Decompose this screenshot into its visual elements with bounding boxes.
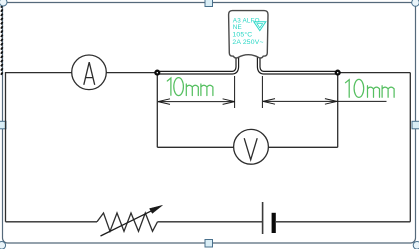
svg-text:NE: NE xyxy=(233,24,242,31)
wire right vertical xyxy=(409,73,411,222)
hatched left edge xyxy=(1,5,3,75)
battery BT1 plate long xyxy=(262,202,264,234)
thermal fuse body U1 xyxy=(229,11,268,58)
handle bottom-right xyxy=(413,242,419,249)
handle bottom-middle xyxy=(205,240,213,248)
dimension extension line right xyxy=(261,76,263,108)
component left lead (double line) xyxy=(159,57,237,73)
handle mid-left xyxy=(0,121,6,129)
handle top-right xyxy=(412,0,419,6)
wire node A down to voltmeter row xyxy=(156,73,158,147)
dimension line right 10mm xyxy=(263,99,387,105)
letter A xyxy=(84,62,95,85)
handle mid-right xyxy=(412,121,419,129)
wire bottom-left horizontal xyxy=(6,221,98,223)
wire voltmeter left horizontal xyxy=(157,146,233,148)
node A (junction ring) xyxy=(155,71,159,75)
wire voltmeter right horizontal xyxy=(268,146,337,148)
letter V xyxy=(244,138,257,160)
logo triangle on body xyxy=(254,22,266,31)
battery BT1 plate short thick xyxy=(272,213,276,233)
component right lead (double line) xyxy=(259,57,337,73)
handle top-middle xyxy=(205,0,213,7)
dimension line left 10mm xyxy=(158,99,235,105)
wire left vertical xyxy=(5,72,7,222)
svg-text:2A 250V~: 2A 250V~ xyxy=(232,39,263,46)
wire top-left horizontal xyxy=(6,72,72,74)
rheostat arrow xyxy=(101,205,163,236)
wire ammeter to node A xyxy=(106,72,156,74)
wire node B down to voltmeter row xyxy=(337,73,339,147)
wire battery to right corner xyxy=(276,221,410,223)
wire node B to right corner xyxy=(339,72,410,74)
handle bottom-left xyxy=(0,242,6,249)
dimension extension line left xyxy=(234,76,236,108)
ammeter M1 xyxy=(72,55,107,90)
svg-text:105°C: 105°C xyxy=(232,30,252,38)
dimension text left 10mm xyxy=(167,78,213,96)
dimension text right 10mm xyxy=(346,79,395,97)
wire rheostat to battery xyxy=(158,221,263,223)
node B (junction ring) xyxy=(336,71,340,75)
handle top-left xyxy=(0,0,7,6)
label text on body xyxy=(232,18,263,46)
rheostat R1 zigzag xyxy=(97,213,158,231)
voltmeter M2 xyxy=(234,129,269,164)
